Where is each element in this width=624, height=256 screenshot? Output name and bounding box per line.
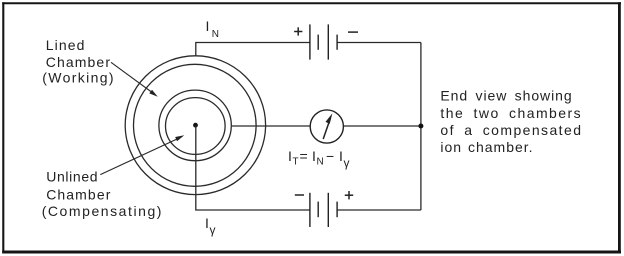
svg-text:of a compensated: of a compensated [440, 122, 582, 138]
svg-text:ion chamber.: ion chamber. [440, 139, 533, 155]
svg-text:I: I [205, 215, 209, 231]
svg-text:I: I [288, 148, 292, 164]
svg-text:γ: γ [344, 156, 350, 170]
svg-text:End view showing: End view showing [440, 88, 572, 104]
svg-text:(Working): (Working) [42, 70, 115, 86]
svg-text:Chamber: Chamber [46, 187, 111, 203]
svg-text:I: I [206, 18, 210, 34]
svg-text:Unlined: Unlined [46, 169, 98, 185]
svg-text:N: N [317, 157, 324, 168]
svg-text:=: = [300, 148, 308, 164]
svg-text:the two chambers: the two chambers [440, 105, 582, 121]
svg-text:Lined: Lined [46, 37, 86, 53]
svg-text:(Compensating): (Compensating) [42, 203, 163, 219]
svg-text:Chamber: Chamber [46, 54, 111, 70]
svg-text:I: I [312, 148, 316, 164]
svg-text:−: − [326, 148, 334, 164]
svg-text:T: T [293, 157, 299, 168]
svg-text:N: N [212, 29, 219, 40]
svg-text:γ: γ [210, 223, 216, 237]
svg-text:I: I [339, 148, 343, 164]
